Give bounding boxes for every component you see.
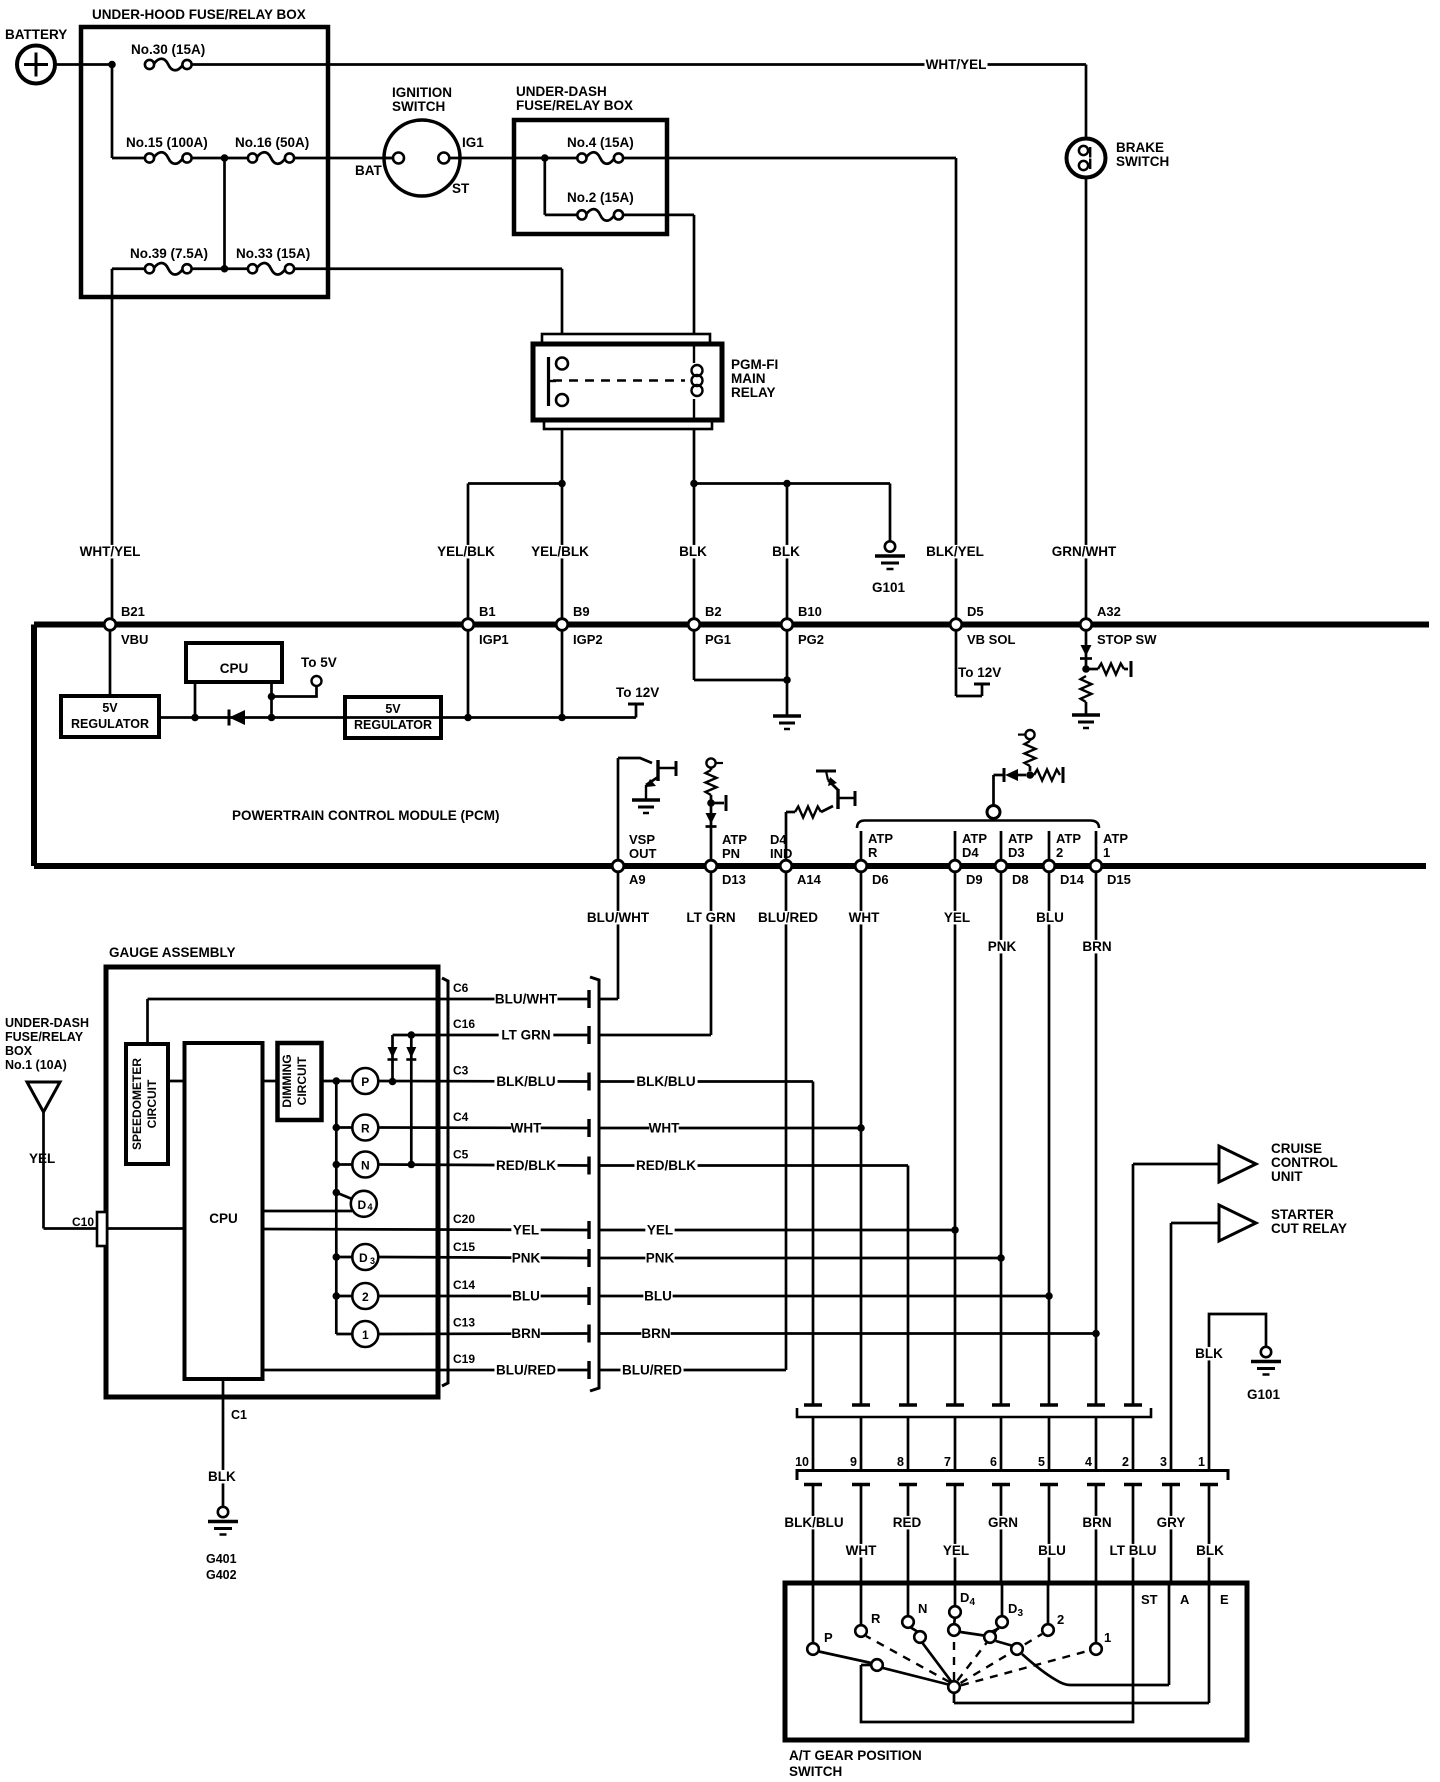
ignition switch: [355, 85, 484, 196]
wire stub D15: [1095, 831, 1098, 859]
svg-text:C13: C13: [453, 1316, 475, 1330]
wire stub D6: [860, 831, 863, 859]
svg-text:C3: C3: [453, 1064, 469, 1078]
pin D6: [855, 860, 888, 887]
svg-text:BRN: BRN: [641, 1326, 670, 1341]
dimming circuit: [278, 1043, 322, 1120]
svg-text:6: 6: [990, 1455, 997, 1469]
svg-text:SWITCH: SWITCH: [1116, 154, 1169, 169]
label 2 contact: [1057, 1612, 1064, 1627]
contact D4b gear switch: [948, 1624, 960, 1636]
indicator lamp N: [352, 1152, 378, 1178]
label ATP D3: [1008, 831, 1033, 860]
svg-text:GAUGE ASSEMBLY: GAUGE ASSEMBLY: [109, 945, 236, 960]
terminal pin C4: [587, 1119, 590, 1137]
pin C20 label: [453, 1212, 475, 1226]
label BLU row: [643, 1289, 672, 1304]
label BLK switch wire: [1195, 1543, 1224, 1558]
pin C6 label: [453, 981, 469, 995]
indicator lamp 1: [352, 1321, 378, 1347]
label RED switch wire: [892, 1515, 921, 1530]
svg-text:STARTER: STARTER: [1271, 1207, 1334, 1222]
label BLU C14: [511, 1289, 540, 1304]
svg-text:R: R: [868, 845, 878, 860]
wire D3 row to C15: [378, 1257, 589, 1258]
svg-text:VBU: VBU: [121, 632, 148, 647]
svg-text:YEL: YEL: [29, 1151, 55, 1166]
diode D3 LT GRN to N: [406, 1035, 416, 1165]
node relay contact junction: [558, 480, 566, 488]
label RED/BLK C5: [494, 1158, 557, 1173]
label BLU/RED A14: [756, 910, 819, 925]
pin B9 IGP2: [556, 604, 602, 647]
relay PGM-FI main relay: [533, 334, 778, 429]
wiper solid D3-D3b: [993, 1628, 1000, 1631]
svg-text:YEL/BLK: YEL/BLK: [437, 544, 495, 559]
node relay coil junction: [690, 480, 698, 488]
wire WHT/YEL down to brake switch: [1085, 65, 1088, 140]
svg-text:1: 1: [362, 1328, 369, 1342]
svg-text:WHT/YEL: WHT/YEL: [926, 57, 987, 72]
wiper solid P-P2: [819, 1652, 871, 1664]
svg-text:WHT/YEL: WHT/YEL: [80, 544, 141, 559]
under-hood fuse/relay box: [81, 7, 328, 297]
label BLU/WHT A9: [586, 910, 649, 925]
svg-text:RED/BLK: RED/BLK: [636, 1158, 696, 1173]
wire CPU to D4 lamp: [263, 1210, 353, 1213]
svg-text:N: N: [361, 1159, 370, 1173]
PCM powertrain control module box: [34, 625, 1429, 867]
wire GRN/WHT brake switch to A32: [1085, 178, 1088, 621]
svg-text:ATP: ATP: [1056, 831, 1081, 846]
diode D1 PCM bus: [229, 710, 245, 726]
svg-text:D4: D4: [962, 845, 979, 860]
svg-text:G401: G401: [206, 1552, 237, 1566]
label ATP 2: [1056, 831, 1081, 860]
svg-text:No.16 (50A): No.16 (50A): [235, 135, 309, 150]
svg-text:4: 4: [367, 1202, 372, 1212]
wire R contact feed: [860, 1585, 863, 1625]
contact 1 gear switch: [1090, 1643, 1102, 1655]
wire C1 gauge to ground: [222, 1379, 225, 1506]
label BLK C1: [206, 1469, 236, 1484]
svg-text:IGP1: IGP1: [479, 632, 509, 647]
pin C5 label: [453, 1148, 469, 1162]
transistor Q2 D4 IND: [786, 771, 855, 859]
label P contact: [824, 1630, 833, 1645]
svg-text:To 5V: To 5V: [301, 655, 337, 670]
wire battery to under-hood box: [55, 63, 112, 66]
contact 2 gear switch: [1042, 1624, 1054, 1636]
svg-text:RELAY: RELAY: [731, 385, 776, 400]
wiper dashed center-2: [961, 1634, 1043, 1683]
connector harness upper terminals: [804, 1403, 1142, 1406]
label YEL/BLK B1: [434, 544, 497, 559]
wire R row to C4: [378, 1126, 589, 1129]
under-dash fuse/relay box: [514, 84, 667, 234]
label BLU switch wire: [1037, 1543, 1066, 1558]
svg-text:GRY: GRY: [1157, 1515, 1186, 1530]
svg-text:No.30 (15A): No.30 (15A): [131, 42, 205, 57]
svg-text:BRAKE: BRAKE: [1116, 140, 1164, 155]
fuse No.39 (7.5A): [112, 246, 225, 275]
svg-text:B21: B21: [121, 604, 145, 619]
label YEL switch wire: [941, 1543, 970, 1558]
svg-text:PN: PN: [722, 846, 740, 861]
svg-text:C14: C14: [453, 1278, 475, 1292]
svg-text:CONTROL: CONTROL: [1271, 1155, 1338, 1170]
wiper dashed center-1: [961, 1651, 1090, 1686]
label D3 contact: [1008, 1601, 1024, 1619]
wire CPU leads down: [195, 682, 272, 718]
label GRY switch wire: [1156, 1515, 1185, 1530]
wire BRN row joins D15: [599, 1330, 1100, 1338]
label YEL: [29, 1151, 55, 1166]
svg-text:BRN: BRN: [511, 1326, 540, 1341]
label BLU/RED row: [620, 1363, 683, 1378]
brace ATP R..1: [857, 821, 1099, 829]
svg-text:No.39 (7.5A): No.39 (7.5A): [130, 246, 208, 261]
terminal pin C13: [587, 1325, 590, 1343]
label BLU/RED C19: [494, 1363, 557, 1378]
wire D3 contact feed: [1001, 1585, 1004, 1616]
wire B9 to bus: [561, 631, 564, 718]
wire CPU to C20 row: [263, 1229, 590, 1230]
svg-text:LT GRN: LT GRN: [686, 910, 735, 925]
label BLU/WHT C6: [494, 992, 557, 1007]
label LT GRN C16: [499, 1028, 554, 1043]
svg-text:BLU/WHT: BLU/WHT: [587, 910, 650, 925]
wire No.33 to PGM-FI relay contact: [294, 269, 562, 334]
svg-text:1: 1: [1104, 1630, 1111, 1645]
svg-text:PNK: PNK: [646, 1251, 675, 1266]
wire C10 into gauge CPU: [107, 1227, 185, 1230]
speedometer circuit: [126, 1044, 168, 1164]
svg-text:R: R: [361, 1122, 370, 1136]
label WHT switch wire: [846, 1543, 877, 1558]
contact CTR gear switch: [948, 1681, 960, 1693]
svg-text:CPU: CPU: [220, 661, 249, 676]
label D4 IND: [770, 832, 792, 861]
label WHT C4: [511, 1121, 542, 1136]
svg-text:CUT RELAY: CUT RELAY: [1271, 1221, 1347, 1236]
contact N2 gear switch: [914, 1631, 926, 1643]
svg-text:B2: B2: [705, 604, 722, 619]
svg-text:YEL: YEL: [944, 910, 970, 925]
svg-text:LT BLU: LT BLU: [1110, 1543, 1157, 1558]
svg-text:3: 3: [1018, 1608, 1024, 1619]
svg-text:D: D: [1008, 1601, 1017, 1616]
wire cruise to switch pin 2 (LT BLU): [1132, 1164, 1135, 1405]
svg-text:To 12V: To 12V: [958, 665, 1001, 680]
node B10 branch junction: [783, 480, 791, 488]
label BLK G101: [1194, 1346, 1223, 1361]
indicator lamp D4: [351, 1191, 377, 1217]
wire dimming to indicator common: [322, 1080, 353, 1083]
svg-text:B10: B10: [798, 604, 822, 619]
wire WHT row joins D6: [599, 1124, 865, 1132]
indicator lamp 2: [352, 1283, 378, 1309]
wire No.39 down to B21 (WHT/YEL): [111, 269, 114, 620]
svg-text:CIRCUIT: CIRCUIT: [145, 1079, 159, 1128]
svg-text:C1: C1: [231, 1408, 247, 1422]
contact mid gear switch: [1011, 1643, 1023, 1655]
svg-text:BLK/YEL: BLK/YEL: [926, 544, 984, 559]
label GRN/WHT: [1052, 544, 1117, 559]
wire junction down to No.39 row: [223, 158, 226, 269]
svg-text:PNK: PNK: [988, 939, 1017, 954]
connector harness upper bracket: [797, 1408, 1151, 1417]
svg-text:VB SOL: VB SOL: [967, 632, 1015, 647]
svg-text:BLU/RED: BLU/RED: [758, 910, 818, 925]
label BLK B2: [678, 544, 707, 559]
svg-text:A9: A9: [629, 872, 646, 887]
svg-text:POWERTRAIN CONTROL MODULE (PCM: POWERTRAIN CONTROL MODULE (PCM): [232, 808, 499, 823]
wire G101 to switch pin 1 (BLK): [1209, 1314, 1266, 1470]
label BLK/BLU C3: [494, 1074, 557, 1089]
svg-text:No.1 (10A): No.1 (10A): [5, 1058, 67, 1072]
contact D3 gear switch: [996, 1616, 1008, 1628]
pin D9: [949, 860, 982, 887]
pin 2 switch connector: [1122, 1455, 1129, 1469]
label BLK B10: [771, 544, 800, 559]
label YEL D9: [942, 910, 971, 925]
svg-text:MAIN: MAIN: [731, 371, 766, 386]
svg-text:RED/BLK: RED/BLK: [496, 1158, 556, 1173]
svg-text:No.2 (15A): No.2 (15A): [567, 190, 634, 205]
svg-text:N: N: [918, 1601, 927, 1616]
wire BLK/BLU row to switch pin 10: [599, 1082, 813, 1406]
svg-text:REGULATOR: REGULATOR: [354, 718, 432, 732]
wiper dashed center-D3: [958, 1628, 999, 1681]
svg-text:D: D: [357, 1198, 366, 1212]
svg-text:BLK: BLK: [208, 1469, 236, 1484]
svg-text:RED: RED: [893, 1515, 922, 1530]
label ATP D4: [962, 831, 987, 860]
label E: [1220, 1592, 1229, 1607]
label PNK C15: [511, 1251, 540, 1266]
pin 1 switch connector: [1198, 1455, 1205, 1469]
svg-text:A/T GEAR POSITION: A/T GEAR POSITION: [789, 1748, 922, 1763]
wire B2 B10 to ground: [694, 631, 791, 716]
label A: [1180, 1592, 1190, 1607]
svg-text:B9: B9: [573, 604, 590, 619]
svg-text:No.15 (100A): No.15 (100A): [126, 135, 208, 150]
pin 5 switch connector: [1038, 1455, 1045, 1469]
connector switch bar: [797, 1471, 1228, 1481]
svg-text:BATTERY: BATTERY: [5, 27, 67, 42]
svg-text:BOX: BOX: [5, 1044, 33, 1058]
gauge assembly box: [106, 945, 438, 1397]
svg-text:FUSE/RELAY BOX: FUSE/RELAY BOX: [516, 98, 633, 113]
contact P gear switch: [807, 1643, 819, 1655]
diode D2 LT GRN to P: [388, 1047, 398, 1060]
svg-text:5V: 5V: [102, 701, 118, 715]
label WHT/YEL at B21: [78, 544, 141, 559]
wire LT BLU ST path: [861, 1585, 1133, 1722]
terminal pin C20: [587, 1221, 590, 1239]
svg-text:BRN: BRN: [1082, 939, 1111, 954]
wire GRY A path: [1022, 1585, 1169, 1685]
svg-text:BLK: BLK: [1196, 1543, 1224, 1558]
wiper solid D3b-mid: [996, 1641, 1012, 1646]
pin 4 switch connector: [1085, 1455, 1092, 1469]
terminal pin C6: [587, 990, 590, 1008]
svg-text:BLK: BLK: [772, 544, 800, 559]
wire No.16 to ignition switch BAT: [294, 157, 393, 160]
label WHT/YEL: [924, 57, 987, 72]
svg-text:9: 9: [850, 1455, 857, 1469]
wire speedometer to C6 row (BLU/WHT): [148, 999, 590, 1044]
svg-text:ATP: ATP: [722, 832, 747, 847]
svg-text:WHT: WHT: [649, 1121, 680, 1136]
pin D8: [995, 860, 1028, 887]
svg-text:ST: ST: [452, 181, 470, 196]
svg-text:SPEEDOMETER: SPEEDOMETER: [130, 1058, 144, 1150]
ground G101 switch: [1247, 1347, 1281, 1402]
svg-text:GRN/WHT: GRN/WHT: [1052, 544, 1117, 559]
fuse No.4 (15A): [567, 135, 634, 164]
wire starter cut to switch pin 3 (GRY): [1170, 1223, 1173, 1470]
connector bracket harness side: [590, 977, 599, 1391]
svg-text:PG2: PG2: [798, 632, 824, 647]
wire connector pass-through: [813, 1417, 1133, 1470]
wire indicator common rail: [333, 1077, 353, 1334]
svg-text:D: D: [960, 1590, 969, 1605]
stop switch input network A32: [1080, 631, 1131, 714]
cruise control unit: [1133, 1141, 1338, 1184]
svg-text:C19: C19: [453, 1352, 475, 1366]
wire relay contact to B1/B9 (YEL/BLK): [468, 429, 562, 620]
pin C4 label: [453, 1110, 469, 1124]
terminal pin C5: [587, 1157, 590, 1175]
wire P row to C3: [378, 1078, 589, 1086]
svg-text:No.33 (15A): No.33 (15A): [236, 246, 310, 261]
svg-text:WHT: WHT: [846, 1543, 877, 1558]
indicator lamp R: [352, 1115, 378, 1141]
label PNK row: [645, 1251, 674, 1266]
fuse No.2 (15A): [567, 190, 634, 221]
wire BLU row joins D14: [599, 1292, 1053, 1300]
svg-text:BLU/RED: BLU/RED: [496, 1363, 556, 1378]
label ATP R: [868, 831, 893, 860]
wire N contact feed: [907, 1585, 910, 1616]
wire RED/BLK row to switch pin 8: [599, 1166, 908, 1406]
svg-text:BLU: BLU: [512, 1289, 540, 1304]
label BLK/BLU switch wire: [782, 1515, 845, 1530]
fuse No.16 (50A): [225, 135, 310, 164]
svg-text:To 12V: To 12V: [616, 685, 659, 700]
wire YEL D9 to switch pin 7: [954, 873, 957, 1405]
svg-text:C5: C5: [453, 1148, 469, 1162]
svg-text:D13: D13: [722, 872, 746, 887]
svg-text:B1: B1: [479, 604, 496, 619]
wire relay coil to B2/B10/G101 (BLK): [694, 429, 890, 620]
label BRN row: [641, 1326, 670, 1341]
wiper solid N-N2: [911, 1628, 918, 1632]
pin C19 label: [453, 1352, 475, 1366]
svg-text:SWITCH: SWITCH: [392, 99, 445, 114]
svg-text:UNIT: UNIT: [1271, 1169, 1303, 1184]
svg-text:CRUISE: CRUISE: [1271, 1141, 1322, 1156]
svg-text:C16: C16: [453, 1017, 475, 1031]
wiper solid P2-center: [883, 1668, 948, 1685]
label LT GRN D13: [684, 910, 739, 925]
wire P contact feed: [812, 1585, 815, 1643]
svg-text:2: 2: [1056, 845, 1063, 860]
terminal pin C14: [587, 1287, 590, 1305]
svg-text:A32: A32: [1097, 604, 1121, 619]
ground PG1/PG2: [773, 716, 801, 729]
wires connector to switch: [813, 1485, 1209, 1584]
wire PNK D8 to switch pin 6: [1000, 873, 1003, 1405]
pin D15: [1090, 860, 1131, 887]
svg-text:GRN: GRN: [988, 1515, 1018, 1530]
pin C15 label: [453, 1240, 475, 1254]
svg-text:D15: D15: [1107, 872, 1131, 887]
svg-text:No.4 (15A): No.4 (15A): [567, 135, 634, 150]
pin B2 PG1: [688, 604, 731, 647]
wire junction down to No.2: [545, 158, 578, 215]
svg-text:3: 3: [1160, 1455, 1167, 1469]
ground G101 relay: [872, 541, 906, 595]
wire stub D8: [1000, 831, 1003, 859]
label R contact: [871, 1611, 881, 1626]
svg-text:OUT: OUT: [629, 846, 657, 861]
svg-text:5V: 5V: [385, 702, 401, 716]
pin B1 IGP1: [462, 604, 508, 647]
svg-text:FUSE/RELAY: FUSE/RELAY: [5, 1030, 84, 1044]
label BLK/YEL: [923, 544, 986, 559]
svg-text:4: 4: [970, 1597, 976, 1608]
pin A14: [780, 860, 821, 887]
pin D5 VB SOL: [950, 604, 1015, 647]
wire 2 row to C14: [378, 1295, 589, 1298]
wire IG1 to under-dash box: [449, 157, 577, 160]
ground VSP emitter: [632, 800, 660, 813]
fuse No.15 (100A): [112, 135, 225, 164]
svg-text:IGP2: IGP2: [573, 632, 603, 647]
svg-text:BLU: BLU: [644, 1289, 672, 1304]
label D4 contact: [960, 1590, 976, 1608]
svg-text:BLK/BLU: BLK/BLU: [784, 1515, 843, 1530]
svg-text:G101: G101: [1247, 1387, 1281, 1402]
terminal pin C19: [587, 1361, 590, 1379]
svg-text:1: 1: [1198, 1455, 1205, 1469]
svg-text:3: 3: [370, 1256, 375, 1266]
svg-text:10: 10: [795, 1455, 809, 1469]
pin 9 switch connector: [850, 1455, 857, 1469]
svg-text:C10: C10: [72, 1215, 94, 1229]
pin C14 label: [453, 1278, 475, 1292]
svg-text:2: 2: [362, 1290, 369, 1304]
svg-text:G101: G101: [872, 580, 906, 595]
svg-text:YEL/BLK: YEL/BLK: [531, 544, 589, 559]
wire LT GRN D13 to gauge C16: [599, 873, 711, 1035]
wire 2 contact feed: [1047, 1585, 1050, 1624]
wire 1 contact feed: [1095, 1585, 1098, 1643]
pin 8 switch connector: [897, 1455, 904, 1469]
label BLK/BLU row: [634, 1074, 697, 1089]
5V regulator left: [61, 696, 159, 737]
terminal pin C16: [587, 1026, 590, 1044]
ATP common pull-up network: [987, 730, 1063, 819]
svg-text:UNDER-DASH: UNDER-DASH: [516, 84, 607, 99]
wiper dashed center-R: [866, 1636, 950, 1682]
svg-text:PGM-FI: PGM-FI: [731, 357, 778, 372]
pin 7 switch connector: [944, 1455, 951, 1469]
ground G401 G402: [206, 1507, 238, 1582]
